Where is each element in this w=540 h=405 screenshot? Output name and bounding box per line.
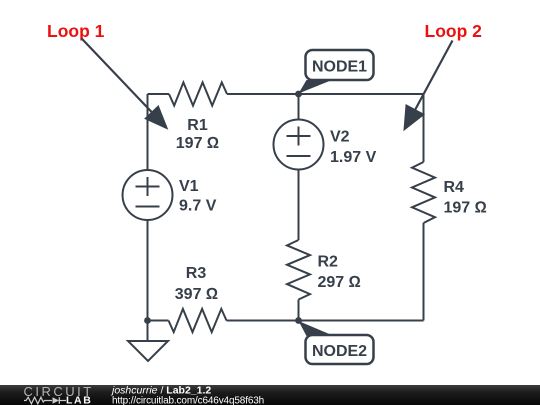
svg-text:397 Ω: 397 Ω	[175, 286, 218, 303]
svg-text:R1: R1	[187, 117, 208, 134]
footer logo resistor squiggle	[24, 397, 52, 404]
svg-text:V1: V1	[179, 178, 199, 195]
svg-text:297 Ω: 297 Ω	[318, 274, 361, 291]
svg-text:Loop 2: Loop 2	[425, 21, 483, 41]
svg-text:LAB: LAB	[66, 395, 92, 405]
wire left rail upper (corner to V1 top)	[147, 94, 149, 170]
resistor R4	[412, 162, 435, 223]
svg-text:http://circuitlab.com/c646v4q5: http://circuitlab.com/c646v4q58f63h	[112, 395, 264, 405]
svg-text:R3: R3	[186, 265, 207, 282]
node label NODE1 box	[306, 50, 374, 80]
svg-text:R4: R4	[444, 179, 465, 196]
node NODE2 junction dot	[295, 317, 302, 324]
svg-text:V2: V2	[330, 129, 350, 146]
wire left rail lower (V1 bottom to bottom wire)	[147, 220, 149, 321]
label R4 197 ohm	[444, 179, 487, 217]
wire right rail upper (corner to R4 top)	[423, 94, 425, 162]
voltage source V2	[274, 120, 324, 170]
wire middle rail top (NODE1 to V2)	[298, 94, 300, 120]
label V1 9.7 V	[179, 178, 217, 215]
wire bottom left segment	[148, 320, 169, 322]
wire middle rail (R2 bottom to NODE2)	[298, 300, 300, 321]
resistor R1	[169, 82, 227, 105]
label R2 297 ohm	[318, 254, 361, 292]
wire bottom right segment	[299, 320, 424, 322]
svg-text:197 Ω: 197 Ω	[444, 200, 487, 217]
node label NODE2 pointer	[299, 321, 335, 336]
svg-text:NODE2: NODE2	[312, 343, 367, 360]
wire middle rail (V2 bottom to R2 top)	[298, 170, 300, 241]
annotation Loop 1 arrowhead	[144, 105, 168, 130]
svg-text:R2: R2	[318, 254, 339, 271]
svg-text:1.97 V: 1.97 V	[330, 149, 377, 166]
svg-text:Loop 1: Loop 1	[47, 21, 105, 41]
wire right rail lower (R4 bottom to bottom wire)	[423, 223, 425, 321]
svg-text:NODE1: NODE1	[312, 58, 367, 75]
voltage source V1	[123, 170, 173, 220]
node junction dot left-bottom	[144, 317, 151, 324]
label V2 1.97 V	[330, 129, 377, 167]
node NODE1 junction dot	[295, 91, 302, 98]
wire ground stub	[147, 321, 149, 342]
footer bar	[0, 385, 540, 405]
footer logo diode	[53, 397, 60, 404]
annotation Loop 2 arrowhead	[403, 104, 425, 131]
svg-text:197 Ω: 197 Ω	[176, 135, 219, 152]
annotation Loop 2 arrow line	[415, 41, 453, 111]
ground	[128, 341, 168, 361]
annotation Loop 1 arrow line	[81, 38, 154, 114]
wire top from left corner to NODE1 to right corner	[148, 93, 424, 95]
resistor R3	[169, 309, 227, 332]
svg-text:9.7 V: 9.7 V	[179, 198, 217, 215]
node label NODE1 pointer	[299, 80, 333, 94]
label R3 397 ohm	[175, 265, 218, 303]
label R1 197 ohm	[176, 117, 219, 152]
wire bottom middle segment	[227, 320, 299, 322]
node label NODE2 box	[306, 335, 374, 364]
resistor R2	[287, 240, 310, 300]
